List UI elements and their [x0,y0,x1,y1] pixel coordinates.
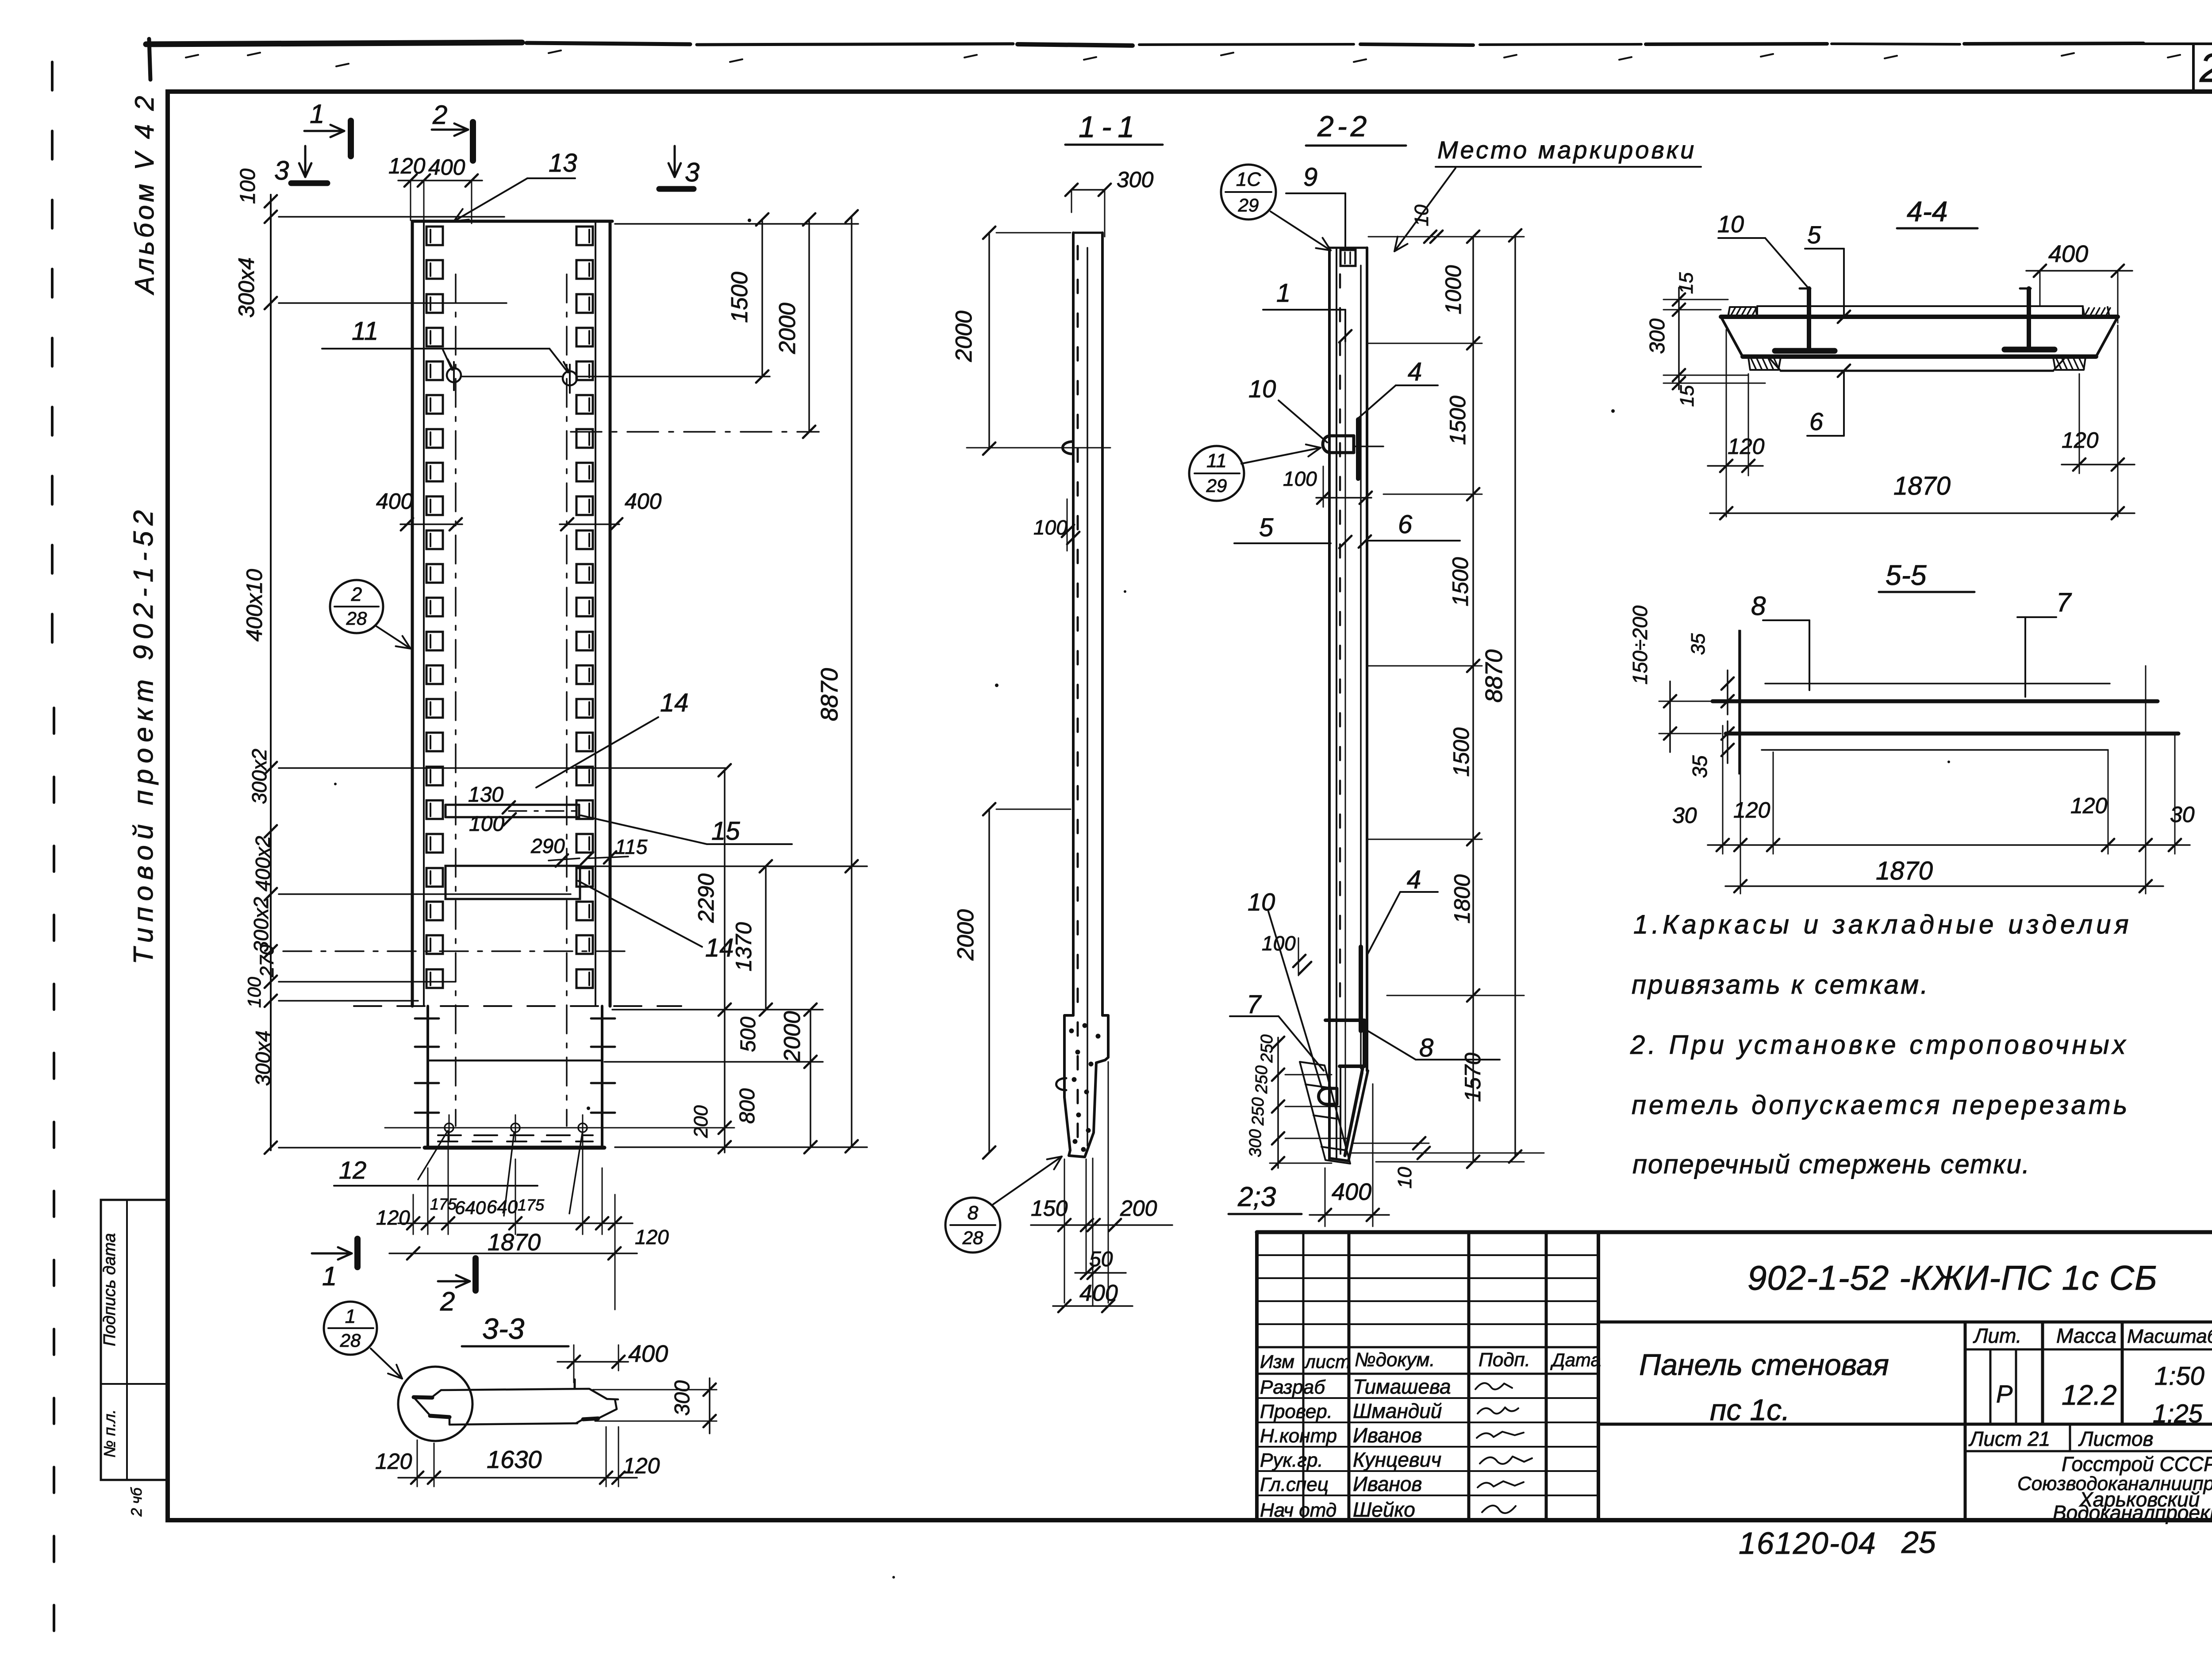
svg-text:Шейко: Шейко [1353,1498,1415,1521]
svg-text:Подпись дата: Подпись дата [100,1233,119,1346]
left dimension line [270,195,272,1150]
svg-text:2. При установке строповочных: 2. При установке строповочных [1630,1030,2129,1060]
right extension lines [612,1009,823,1011]
svg-text:300x4: 300x4 [234,257,259,318]
panel centerline right dash-dot [566,274,568,1126]
svg-text:800: 800 [736,1088,759,1124]
svg-text:8870: 8870 [1481,649,1507,703]
svg-text:16120-04: 16120-04 [1739,1526,1877,1560]
svg-text:Шмандий: Шмандий [1353,1399,1442,1422]
panel hooks right column [576,227,593,245]
section 5-5 left extension [1738,630,1740,774]
section 1-1 dim 2000 lower [988,809,990,1153]
svg-text:29: 29 [1206,475,1227,496]
svg-text:Н.контр: Н.контр [1260,1425,1337,1447]
svg-text:100: 100 [236,169,260,204]
section 4-4 anchor left [1807,288,1811,351]
section 3-3 profile bottom [449,1417,577,1425]
section 4-4 bottom left hatch [1748,357,1781,370]
svg-text:2000: 2000 [953,909,979,961]
svg-text:24: 24 [2199,46,2212,91]
section 2-2 marking box [1340,250,1356,266]
section 1-1 loop lower [1056,1078,1067,1090]
svg-text:1870: 1870 [1876,857,1933,885]
sheet number box [2192,44,2195,92]
dim line 1370 [765,866,767,1010]
dim line 8870 [851,216,853,1146]
svg-text:14: 14 [660,688,689,717]
svg-text:120: 120 [2070,793,2108,818]
svg-text:Листов: Листов [2078,1427,2154,1450]
title block row lines [1257,1397,1598,1399]
panel lower rebar dashes right [591,1018,615,1020]
svg-text:5: 5 [1807,221,1821,249]
svg-text:1800: 1800 [1450,874,1475,923]
section 2-2 plate upper [1356,419,1360,479]
panel hooks left column [426,227,443,245]
svg-text:500: 500 [737,1017,760,1052]
dim line 1500 [761,219,763,377]
title block outline [1257,1230,2212,1234]
section 3-3 dim chain 120 1630 120 [398,1477,637,1479]
panel lower inner line [428,1060,602,1062]
section 4-4 bottom slab [1743,354,2096,359]
section 3-3 tongue left [414,1397,432,1398]
panel lower rebar dashes left [415,1018,439,1020]
section 1-1 foot [1064,1015,1108,1157]
svg-text:400x10: 400x10 [242,569,267,642]
svg-text:8: 8 [1419,1034,1433,1062]
svg-text:120: 120 [1728,434,1765,459]
section 1-1 loop upper [1063,442,1073,454]
svg-text:400: 400 [428,155,465,180]
svg-text:250: 250 [1249,1097,1267,1126]
svg-text:Типовой проект 902-1-52: Типовой проект 902-1-52 [128,504,159,964]
svg-text:8: 8 [968,1202,979,1224]
svg-text:Р: Р [1996,1380,2012,1408]
title block verticals [1302,1232,1305,1520]
section 1-1 bottom dims [1031,1224,1172,1226]
window slot upper [445,804,579,806]
svg-text:28: 28 [346,608,367,629]
title block header row line [1257,1346,1598,1349]
panel bottom holes [445,1123,453,1132]
svg-text:15: 15 [1676,385,1698,407]
svg-text:Нач отд: Нач отд [1260,1499,1336,1521]
svg-text:14: 14 [705,934,734,962]
dim 1870 bottom [389,1253,637,1254]
svg-text:29: 29 [1238,195,1259,215]
svg-text:120: 120 [2062,428,2099,453]
svg-text:Провер.: Провер. [1260,1401,1333,1422]
svg-text:№докум.: №докум. [1355,1349,1435,1371]
svg-text:поперечный стержень сетки.: поперечный стержень сетки. [1632,1149,2030,1179]
section 2-2 loop lower [1319,1088,1337,1104]
svg-text:1370: 1370 [731,922,756,971]
panel bottom edge [425,1146,604,1150]
dims 250 250 250 300 [1277,1037,1279,1168]
svg-text:400: 400 [2048,241,2088,267]
svg-text:2290: 2290 [694,873,718,923]
svg-text:120: 120 [375,1449,412,1474]
panel bottom dashed boundary [354,1005,681,1007]
svg-text:400: 400 [376,489,413,514]
svg-text:15: 15 [1675,272,1697,294]
section 2-2 mesh dashes [1339,274,1341,288]
svg-text:12.2: 12.2 [2062,1379,2117,1411]
section 1-1 foot dots [1069,1029,1074,1034]
svg-text:2000: 2000 [775,303,800,354]
extension window2 top [580,865,867,867]
section 2-2 embedded Z plate [1325,1020,1364,1066]
section 5-5 chain extensions [1722,726,1724,854]
svg-text:№ п.л.: № п.л. [100,1409,119,1457]
top left corner mark [149,39,150,80]
section 4-4 body slants [1721,317,1743,357]
svg-text:120: 120 [388,154,426,178]
bottom chain extension lines [413,1195,414,1234]
svg-text:250: 250 [1252,1065,1271,1094]
svg-text:1:50: 1:50 [2154,1362,2204,1391]
svg-text:10: 10 [1248,888,1275,916]
loop extension line [1355,446,1383,447]
section 1-1 dim 2000 upper [988,233,990,449]
svg-text:400: 400 [628,1341,668,1367]
svg-text:115: 115 [615,835,648,858]
right dim top extension [615,223,858,225]
svg-text:902-1-52 -КЖИ-ПС 1с СБ: 902-1-52 -КЖИ-ПС 1с СБ [1747,1258,2158,1297]
svg-text:4-4: 4-4 [1907,196,1948,227]
svg-text:300x2: 300x2 [250,897,273,952]
section 3-3 right end notch [598,1399,617,1418]
svg-text:290: 290 [530,834,565,857]
svg-text:35: 35 [1688,755,1711,778]
window opening lower [445,866,580,899]
svg-text:1570: 1570 [1460,1053,1485,1102]
svg-text:270: 270 [256,945,278,978]
svg-text:9: 9 [1303,163,1317,192]
svg-text:8: 8 [1751,591,1766,621]
svg-text:2: 2 [440,1287,455,1316]
svg-text:5: 5 [1259,513,1274,542]
svg-text:25: 25 [1901,1525,1936,1560]
section 4-4 dims 15 300 15 [1678,288,1680,389]
section 2-2 right chain [1472,237,1474,1162]
section 2-2 plate lower [1359,947,1363,1031]
section 4-4 top slab right hatch [2083,307,2109,317]
svg-text:Лит.: Лит. [1973,1324,2022,1347]
bottom dim chain [398,1222,633,1224]
section 5-5 bar top [1713,699,2158,703]
hole leader lines [418,1131,448,1180]
svg-text:Подп.: Подп. [1479,1349,1530,1371]
panel bottom dashed lines [438,1134,593,1136]
section 1-1 dim 300 top [1071,189,1105,191]
left fold dashed line [51,62,54,681]
svg-text:120: 120 [635,1226,669,1249]
svg-text:1-1: 1-1 [1079,110,1141,144]
scan edge small ticks [186,55,198,58]
svg-text:120: 120 [623,1453,660,1478]
svg-text:лист: лист [1304,1351,1351,1372]
svg-text:Госстрой СССР: Госстрой СССР [2062,1452,2212,1475]
svg-text:1500: 1500 [1448,557,1473,606]
section 1-1 bottom stem line [1092,1158,1094,1305]
callout circle 1/28 [324,1302,377,1355]
svg-text:2: 2 [351,584,362,605]
svg-text:1500: 1500 [1449,727,1474,776]
svg-text:640: 640 [455,1197,486,1218]
left dim extension lines [279,216,504,218]
svg-text:1: 1 [322,1261,337,1291]
svg-text:11: 11 [1206,450,1227,472]
svg-text:1С: 1С [1236,169,1261,190]
svg-text:Дата: Дата [1550,1349,1601,1370]
svg-text:7: 7 [1247,990,1262,1019]
extension at 976 [571,431,819,433]
svg-text:10: 10 [1717,211,1744,238]
svg-text:175: 175 [430,1195,457,1213]
section 5-5 mesh wires [1765,683,2110,684]
svg-text:100: 100 [1262,932,1296,955]
svg-text:1:25: 1:25 [2153,1399,2203,1428]
scan edge top band [146,42,522,44]
svg-text:400: 400 [1332,1179,1371,1205]
panel lifting loop right [563,371,577,385]
svg-text:3-3: 3-3 [482,1312,525,1345]
svg-text:300x4: 300x4 [251,1030,274,1086]
section 3-3 detail circle [398,1367,472,1441]
title block right horizontals [1598,1321,2212,1324]
svg-text:Масса: Масса [2056,1324,2116,1347]
svg-text:Тимашева: Тимашева [1353,1375,1451,1398]
svg-text:175: 175 [518,1196,545,1214]
section 3-3 profile top [431,1389,618,1399]
svg-text:35: 35 [1687,633,1709,655]
svg-text:150: 150 [1031,1196,1068,1221]
svg-text:1870: 1870 [1893,472,1951,500]
svg-text:10: 10 [1248,375,1276,403]
section 4-4 bottom right hatch [2053,357,2085,370]
svg-text:640: 640 [487,1196,518,1217]
section 4-4 top slab [1757,305,2083,307]
panel elevation outer left edge [411,221,414,1006]
section 1-1 mesh dashes [1077,246,1079,259]
svg-text:Кунцевич: Кунцевич [1353,1448,1441,1471]
svg-text:4: 4 [1407,865,1421,894]
svg-text:Масштаб: Масштаб [2127,1326,2212,1347]
svg-text:30: 30 [1672,803,1697,828]
callout circle 1C/29 [1221,165,1276,219]
holes axis line [385,1127,734,1129]
svg-text:200: 200 [1120,1196,1157,1221]
svg-text:Изм: Изм [1260,1351,1294,1372]
svg-text:Лист 21: Лист 21 [1968,1427,2050,1450]
svg-text:1500: 1500 [727,272,753,323]
svg-text:300x2: 300x2 [248,749,271,804]
svg-text:Иванов: Иванов [1353,1424,1422,1447]
section 2-2 strip [1329,247,1367,249]
svg-text:привязать к сеткам.: привязать к сеткам. [1632,970,1930,999]
svg-text:1.Каркасы и закладные изделия: 1.Каркасы и закладные изделия [1633,910,2132,939]
callout circle 11/29 [1189,446,1244,501]
svg-text:13: 13 [549,149,577,177]
svg-text:1: 1 [1276,279,1290,307]
svg-text:1000: 1000 [1441,265,1466,314]
svg-text:28: 28 [962,1227,983,1248]
svg-text:Водоканалпроект: Водоканалпроект [2053,1501,2212,1524]
svg-text:Альбом V 4 2: Альбом V 4 2 [130,93,159,295]
drawing frame border [168,92,2212,1520]
svg-text:150÷200: 150÷200 [1628,605,1651,684]
svg-text:1630: 1630 [487,1445,542,1473]
svg-text:100: 100 [1283,467,1317,490]
svg-text:12: 12 [339,1156,366,1184]
svg-text:петель допускается перерезать: петель допускается перерезать [1632,1090,2130,1120]
svg-text:100: 100 [469,812,504,836]
svg-text:8870: 8870 [816,668,843,721]
panel centerline left dash-dot [455,274,457,1126]
panel lifting loop left [447,368,461,382]
svg-text:120: 120 [376,1206,410,1229]
svg-text:300: 300 [1246,1129,1265,1157]
loop level extension line [462,376,562,377]
panel elevation top edge [412,220,612,223]
section 2-2 foot outline [1329,1158,1348,1161]
panel lower part edges [426,1006,429,1148]
callout circle 8/28 for 1-1 [945,1198,1000,1253]
panel elevation outer right edge [609,221,612,1006]
section 1-1 strip [1073,232,1102,234]
svg-text:Рук.гр.: Рук.гр. [1260,1449,1323,1471]
section 2-2 loop upper [1323,436,1354,453]
svg-text:300: 300 [1646,319,1669,354]
svg-text:5-5: 5-5 [1886,559,1927,591]
svg-text:2000: 2000 [780,1011,805,1063]
svg-text:Панель стеновая: Панель стеновая [1639,1348,1889,1382]
svg-text:1870: 1870 [488,1229,541,1256]
svg-text:2000: 2000 [951,311,977,362]
svg-text:300: 300 [1117,167,1154,192]
svg-text:пс 1с.: пс 1с. [1710,1393,1790,1427]
svg-text:10: 10 [1394,1167,1416,1188]
panel horizontal centerline dash-dot [283,950,633,952]
svg-text:1500: 1500 [1445,396,1470,445]
dim line 2290 [724,770,726,1153]
section mark 1 bottom [312,1253,352,1255]
svg-text:130: 130 [468,783,503,807]
section 5-5 bar bottom [1726,732,2178,736]
svg-text:4: 4 [1408,357,1422,386]
svg-text:100: 100 [244,976,265,1008]
svg-text:Разраб: Разраб [1260,1376,1326,1398]
svg-text:1: 1 [310,99,324,129]
svg-text:200: 200 [690,1105,712,1138]
title block thin rows upper [1257,1254,1598,1256]
chain extension lines [1368,236,1524,238]
title block signatures [1475,1383,1512,1389]
svg-text:30: 30 [2170,802,2195,827]
section 3-3 top stub [574,1379,576,1389]
svg-text:6: 6 [1809,407,1824,435]
svg-text:1: 1 [345,1306,356,1327]
svg-text:6: 6 [1398,510,1413,539]
svg-text:400: 400 [625,489,662,514]
svg-text:3: 3 [274,156,289,185]
section 4-4 top slab left hatch [1728,307,1757,317]
section mark 2 bottom [438,1280,470,1283]
section 2-2 bent bar band [1300,1062,1350,1164]
svg-text:11: 11 [352,317,378,346]
section 5-5 bottom chain [1708,844,2190,846]
svg-text:300: 300 [671,1380,694,1416]
svg-text:Гл.спец: Гл.спец [1260,1474,1329,1495]
callout circle 2/28 [330,580,383,633]
svg-text:10: 10 [1411,204,1432,226]
svg-text:2-2: 2-2 [1317,110,1370,142]
section 2-2 8870 line [1514,235,1516,1157]
svg-text:250: 250 [1258,1034,1276,1063]
dim line 2000 upper [808,219,810,432]
svg-text:15: 15 [711,817,740,845]
svg-text:2: 2 [432,100,447,130]
dim line 500 800 [810,1010,811,1147]
svg-text:3: 3 [685,158,699,187]
svg-text:2;3: 2;3 [1237,1182,1276,1212]
svg-text:Место маркировки: Место маркировки [1437,136,1696,164]
svg-text:Иванов: Иванов [1353,1472,1422,1495]
svg-text:400x2: 400x2 [251,836,274,891]
svg-text:2 чб: 2 чб [128,1487,145,1517]
svg-text:28: 28 [340,1330,361,1351]
margin bottom table [101,1200,168,1480]
stray marks [748,219,751,222]
svg-text:120: 120 [1733,798,1770,822]
svg-text:7: 7 [2056,588,2072,617]
section 4-4 anchor right [2027,288,2031,350]
